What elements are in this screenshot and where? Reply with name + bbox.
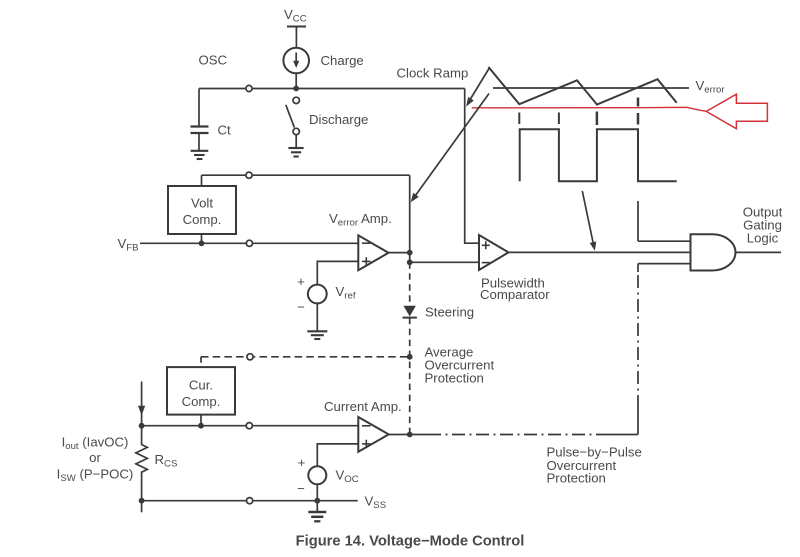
wire: main current sense rail	[139, 423, 359, 429]
ground (VOC)	[308, 501, 326, 522]
dashed crossing markers	[519, 98, 638, 126]
op-amp current amp	[358, 417, 388, 452]
ground (Discharge)	[288, 148, 303, 157]
svg-text:Clock Ramp: Clock Ramp	[397, 66, 469, 81]
svg-text:Current Amp.: Current Amp.	[324, 399, 402, 414]
ground (Ct)	[191, 151, 209, 159]
wire VSS rail	[142, 500, 358, 502]
label Vref polarity	[297, 274, 305, 315]
svg-text:Figure 14. Voltage−Mode Contro: Figure 14. Voltage−Mode Control	[296, 534, 525, 550]
annotation arrow: ramp crossing to error node	[411, 94, 489, 203]
waveform: clock ramp sawtooth	[489, 67, 677, 105]
box Volt Comp	[168, 186, 236, 234]
wire: volt comp top feedback rail	[202, 172, 410, 186]
svg-text:+: +	[297, 274, 305, 289]
wire OSC horizontal rail	[199, 88, 465, 90]
arrow: current direction	[138, 382, 145, 426]
source Vref	[308, 285, 327, 304]
red Verror trace	[472, 107, 707, 111]
waveform: PWM square wave	[520, 129, 677, 181]
annotation arrow: Clock Ramp to ramp node	[466, 69, 489, 107]
label Average Overcurrent Protection	[425, 345, 495, 386]
switch Discharge	[286, 97, 300, 147]
red callout arrow	[706, 94, 767, 129]
svg-text:Logic: Logic	[747, 231, 779, 246]
wire: current source to OSC rail	[295, 73, 297, 88]
op-amp error amp	[358, 235, 388, 270]
and-gate Output Gating Logic	[691, 234, 736, 270]
wire: cur comp bottom stub	[200, 415, 202, 426]
Verror level line	[493, 87, 689, 89]
label Pulsewidth Comparator	[480, 276, 550, 302]
svg-text:−: −	[297, 481, 305, 496]
dashed wire: steering branch	[409, 262, 411, 434]
svg-text:Cur.: Cur.	[189, 378, 213, 393]
svg-text:or: or	[89, 450, 101, 465]
dashed wire: average OC line to Cur Comp	[201, 354, 413, 367]
svg-text:Comp.: Comp.	[182, 394, 221, 409]
source VOC	[308, 466, 326, 484]
net VCC supply	[284, 7, 307, 48]
pin circle on OSC rail	[246, 85, 252, 91]
wire: comparator output to AND gate	[509, 251, 691, 253]
svg-text:OSC: OSC	[199, 53, 228, 68]
svg-text:Discharge: Discharge	[309, 112, 368, 127]
wire: ramp rail to pulsewidth comparator + input	[465, 89, 479, 244]
wire: node to comparator - input	[410, 261, 479, 263]
junction dot on OSC rail	[293, 86, 299, 92]
diode Steering	[403, 306, 417, 318]
svg-text:Comp.: Comp.	[183, 212, 222, 227]
wire: current amp + input to VOC	[317, 444, 358, 466]
label Pulse-by-Pulse Overcurrent Protection	[547, 445, 642, 486]
wire Vref to ground	[316, 303, 318, 330]
wire VFB rail	[140, 242, 358, 244]
svg-text:+: +	[298, 455, 306, 470]
svg-text:Charge: Charge	[321, 53, 364, 68]
capacitor Ct	[191, 89, 209, 151]
svg-text:Steering: Steering	[425, 305, 474, 320]
ground (Vref)	[307, 331, 327, 339]
svg-text:Protection: Protection	[547, 471, 606, 486]
wire: error amp + input to Vref	[317, 261, 358, 284]
wire: volt comp bottom stub	[201, 234, 203, 243]
svg-text:Protection: Protection	[425, 371, 484, 386]
label Output Gating Logic	[743, 205, 783, 246]
svg-text:−: −	[297, 300, 305, 315]
svg-text:Comparator: Comparator	[480, 287, 550, 302]
dash-dot wire: pulse-by-pulse loop horizontal	[410, 434, 638, 436]
wire: error amp output node	[389, 175, 413, 265]
comparator Pulsewidth	[479, 235, 509, 270]
svg-text:Volt: Volt	[191, 196, 213, 211]
wire: gate top input from square wave	[638, 201, 691, 241]
current source Charge	[283, 48, 309, 74]
label VOC polarity	[297, 455, 306, 496]
labels Iout / or / Isw	[57, 435, 134, 485]
wire: gate bottom input	[638, 263, 691, 265]
annotation arrow: square wave to comparator output	[582, 191, 596, 251]
svg-text:Ct: Ct	[218, 123, 232, 138]
wire: VOC to VSS rail	[316, 484, 318, 500]
wire: gate output	[736, 251, 781, 253]
resistor RCS	[136, 426, 147, 513]
box Cur Comp	[167, 367, 235, 415]
dash-dot wire: pulse-by-pulse loop vertical	[637, 264, 639, 435]
wire: current amp output node	[389, 432, 413, 438]
